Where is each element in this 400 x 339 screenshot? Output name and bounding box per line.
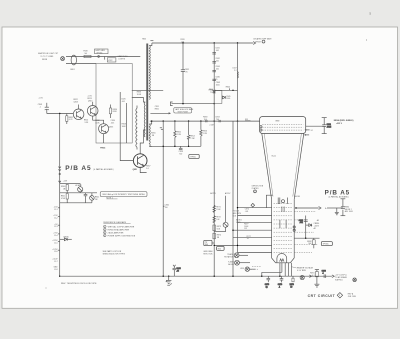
svg-text:.05: .05 [176,271,179,273]
svg-text:R874: R874 [217,234,221,236]
connector arrow to supply [332,275,334,278]
svg-text:2.2: 2.2 [234,70,237,72]
svg-text:DEFLECTION: DEFLECTION [252,185,264,187]
wire graticule top [66,56,140,58]
svg-text:+225V: +225V [52,240,58,242]
svg-text:700: 700 [179,154,182,156]
svg-text:15 TO 7 V RMS: 15 TO 7 V RMS [41,56,54,58]
legend item 1 [104,225,135,228]
svg-text:+125V: +125V [52,249,58,251]
node left rail to ground bus [59,276,60,277]
svg-text:R836: R836 [113,109,117,111]
svg-text:R822: R822 [74,99,78,101]
svg-text:R838: R838 [137,92,141,94]
heater filament [280,259,284,262]
zener VR843 [209,90,216,94]
legend item 3 [104,231,125,234]
svg-text:FROM: FROM [256,41,262,43]
svg-text:≈225 V: ≈225 V [336,123,343,125]
svg-text:860: 860 [218,248,221,250]
svg-text:4: 4 [104,235,105,237]
resistor R854 [187,121,195,146]
wire secondary top lead [149,43,152,46]
svg-text:R878: R878 [290,284,294,286]
svg-text:R875 750K: R875 750K [203,253,213,255]
svg-text:CR845: CR845 [63,236,69,238]
svg-text:FOCUS: FOCUS [233,211,239,213]
svg-text:C893: C893 [322,270,326,272]
wire adjust row [60,192,97,194]
wire gun feed rows [238,207,272,209]
svg-text:R852: R852 [177,132,181,134]
svg-text:C878: C878 [278,284,282,286]
capacitor C832 branch [180,39,189,104]
neck wall pin circles right [293,226,295,231]
svg-text:R842: R842 [95,197,99,199]
label secondary 1M [151,133,155,137]
svg-text:TEST POINT: TEST POINT [178,111,189,113]
svg-text:2.2M: 2.2M [203,133,208,135]
svg-text:C844: C844 [216,66,220,68]
svg-text:C879: C879 [265,284,269,286]
svg-text:.001: .001 [181,41,185,43]
svg-text:POWER SUPPLY DISTRIBUTION: POWER SUPPLY DISTRIBUTION [108,236,136,238]
labels right of deflection column [244,208,251,240]
capacitor C891 series [322,270,326,278]
svg-text:C846: C846 [216,76,220,78]
capacitor C842 [212,58,219,63]
resistor R873 [213,225,221,231]
svg-text:C859: C859 [215,117,219,119]
junction node [59,113,60,114]
wire focus column [225,196,227,223]
wire primary top lead [132,98,145,103]
svg-text:5.6: 5.6 [146,168,149,170]
wire bias row [47,113,74,115]
connector chevrons on left rail [58,167,61,175]
wire filament winding leads [149,121,151,124]
svg-text:C833: C833 [180,39,184,41]
chassis ground center [166,276,172,285]
CRT funnel walls [262,133,304,199]
svg-text:R871: R871 [216,206,220,208]
svg-text:L847: L847 [233,68,237,70]
transistor Q833 [99,124,114,134]
svg-text:GEOM: GEOM [294,196,300,198]
resistor R872 [213,216,221,223]
label box HIGH VOLTAGE TEST POINT [174,108,194,114]
svg-text:860: 860 [205,244,208,246]
resistor R874 [213,233,221,239]
wire arrow to test point [150,112,171,114]
svg-text:R844: R844 [226,86,230,88]
svg-text:.001: .001 [216,69,220,71]
svg-text:4.7: 4.7 [312,275,315,277]
svg-text:TP: TP [205,242,207,244]
capacitor C808 [38,103,49,114]
label DELAYED SWP GATE [254,38,272,44]
svg-text:TP 855: TP 855 [97,52,103,54]
wire link to horiz rail [214,89,237,91]
label 855 node [245,119,251,121]
wire grid column [232,121,234,276]
label C860 [163,205,169,209]
mesh dashed rows in faceplate [262,124,303,130]
svg-text:J1-6: J1-6 [54,251,58,253]
svg-text:+110V: +110V [52,258,58,260]
svg-text:R828: R828 [122,124,126,126]
wire HV test point row [172,103,215,105]
label graticule lights [118,55,128,60]
svg-text:Q855: Q855 [133,169,137,171]
svg-text:Q813: Q813 [88,100,92,102]
svg-text:C843: C843 [216,82,220,84]
resistor R856 [200,121,208,146]
tube label box V822 [105,57,116,63]
svg-text:R831: R831 [69,117,73,119]
wire lower row right [294,237,319,239]
wire inner box columns [119,92,121,143]
wire deflection plate exit [266,195,272,208]
svg-text:R854: R854 [190,136,194,138]
svg-text:C866: C866 [176,268,180,270]
svg-text:CRT CIRCUIT: CRT CIRCUIT [308,294,336,298]
legend item 2 [104,228,130,231]
wire left rail down [59,114,61,277]
shield box enclosure [96,64,132,144]
svg-text:J1-4: J1-4 [54,235,58,237]
wire Q855 base left [120,143,133,161]
svg-text:MESH (DEFL SHIELD): MESH (DEFL SHIELD) [334,120,354,122]
svg-text:700: 700 [204,119,207,121]
svg-text:R813: R813 [88,98,92,100]
CRT neck walls [272,199,295,262]
label geometry pin [294,196,300,198]
node dots on bus [151,120,152,121]
CRT socket arch [277,253,287,262]
resistor R836 [109,105,117,119]
socket pin drops [285,263,291,276]
svg-text:L859: L859 [240,268,244,270]
capacitor C846 [212,76,219,80]
svg-text:.001: .001 [216,50,220,52]
transistor Q855 HV oscillator [133,154,147,171]
diode CR886 [306,223,320,230]
screw terminal on bus [300,276,304,280]
svg-text:25: 25 [216,79,218,81]
label R844 [226,86,230,90]
capacitor C859 marks on bus [203,117,220,127]
svg-text:V822: V822 [108,60,112,62]
svg-text:J1-2: J1-2 [54,218,58,220]
svg-text:25: 25 [186,71,188,73]
svg-text:.1: .1 [39,107,41,109]
svg-text:2.2M: 2.2M [190,138,195,140]
svg-text:700: 700 [216,119,219,121]
svg-text:C886: C886 [299,220,303,222]
svg-text:P/B A5: P/B A5 [325,189,350,196]
connector pin J1-4 [53,233,59,237]
svg-text:C841: C841 [216,48,220,50]
resistor R824 [84,120,89,124]
test point box 855 [189,154,199,158]
label C826 [121,99,125,103]
svg-text:J1-5: J1-5 [54,243,58,245]
node dots on ground bus [163,276,164,277]
label revision [348,292,356,298]
svg-text:TP 865: TP 865 [323,244,329,246]
svg-text:Q833: Q833 [109,126,113,128]
wire adjust bottom [60,202,92,204]
svg-text:R872: R872 [216,217,220,219]
wire mesh lead right [306,125,325,127]
wire deflection column [237,43,239,253]
label focus adj [233,211,241,218]
wire Q3 emitter [103,134,105,143]
svg-text:.001: .001 [121,101,125,103]
svg-text:T855: T855 [142,38,146,40]
coil L859 beam rotation [240,267,255,271]
node junction y43 [182,42,183,43]
label mesh shield [334,120,354,125]
resistor R840 [60,184,69,193]
label heater voltage [291,267,313,272]
svg-text:C851: C851 [155,106,159,108]
svg-text:2: 2 [254,191,255,193]
svg-text:C858: C858 [179,151,183,153]
transformer T855 core [146,44,148,141]
wire bias column lower [213,121,215,276]
potentiometer TRACE ROTATION [224,253,248,259]
svg-text:SEMICONDUCTOR TYPES: SEMICONDUCTOR TYPES [103,253,125,255]
main ground bus [60,275,332,277]
connector arrow bus right [309,275,311,278]
svg-text:R888: R888 [307,241,311,243]
resistor R882 vertical [327,199,345,216]
wire graticule bottom [66,63,96,65]
svg-text:.0015: .0015 [327,127,332,129]
svg-text:.001: .001 [299,222,303,224]
svg-text:TP855: TP855 [190,156,195,158]
svg-text:R856: R856 [203,131,207,133]
labels geometry network [345,206,354,213]
legend item 4 [104,234,136,237]
svg-text:24: 24 [311,130,313,132]
svg-text:P/B A5: P/B A5 [65,165,91,172]
svg-text:J1-8: J1-8 [54,269,58,271]
wire primary bottom lead to Q855 [140,130,145,154]
svg-text:JUN 1980: JUN 1980 [348,296,356,298]
svg-text:R855: R855 [151,133,155,135]
capacitor C878 below bus [278,276,284,288]
svg-text:2.2M: 2.2M [177,134,182,136]
test point label box LAST GRID TP [95,49,109,57]
svg-text:R824: R824 [84,120,88,122]
svg-text:C834: C834 [111,120,115,122]
HV rectifier bus [150,120,260,122]
test point box 865 [321,242,332,246]
label C834 [111,120,115,124]
svg-text:REV. 7603/R7603 OSCILLOSCOPE: REV. 7603/R7603 OSCILLOSCOPE [61,283,97,285]
capacitor C884 [299,220,308,224]
diagram diamond ref 5 [337,293,342,298]
CRT V859 faceplate [260,117,306,134]
dashed links to socket [252,266,262,269]
svg-text:C832: C832 [185,69,189,71]
svg-text:1000: 1000 [216,84,220,86]
resistor R878 below bus [290,276,295,288]
svg-text:R841: R841 [61,196,65,198]
label +15V feed [59,181,68,183]
svg-text:150: 150 [165,207,168,209]
svg-text:TP855: TP855 [100,147,105,149]
svg-text:C842: C842 [216,58,220,60]
svg-text:LIGHTS: LIGHTS [119,59,126,61]
label GRATICULE LIGHT input [38,52,58,61]
svg-text:Q823: Q823 [74,101,78,103]
wire multiplier column [213,43,215,121]
svg-text:C860: C860 [165,205,169,207]
label R828 [122,124,127,128]
potentiometer FOCUS [214,222,228,231]
diagram circle ref 2 [254,190,257,193]
diode D840 label [209,89,213,91]
transformer primary winding [144,102,145,137]
svg-text:.1: .1 [322,273,324,275]
svg-text:R859: R859 [203,117,207,119]
svg-text:.001: .001 [216,61,220,63]
svg-text:2.2M: 2.2M [210,124,215,126]
diode CR845 [60,236,72,240]
svg-text:CR886: CR886 [314,223,320,225]
label C851 R851 [155,106,159,110]
wire astig column right [305,216,307,239]
transformer feedback winding [136,106,137,150]
transformer filament winding [148,124,151,146]
svg-text:REFERENCE DIAGRAMS: REFERENCE DIAGRAMS [103,221,126,224]
dashed socket links right [294,212,318,253]
svg-text:+15 V (DCPL): +15 V (DCPL) [335,275,347,277]
svg-text:R840: R840 [61,186,65,188]
potentiometer Y AXIS ALIGN [228,260,250,266]
wire Q2 to Q3 [93,116,104,124]
svg-text:GEOM 2: GEOM 2 [345,209,352,211]
svg-text:V859: V859 [275,120,279,122]
svg-text:R891: R891 [310,272,314,274]
label C843 [216,82,220,86]
connector pin J1-1 [54,206,60,210]
transistor Q813 [87,96,98,117]
svg-text:C874: C874 [245,208,249,210]
capacitor C858 [179,146,183,155]
label astig [236,219,242,224]
svg-text:C826: C826 [121,99,125,101]
stray mark [46,288,47,289]
connector pin J1-2 [53,215,59,219]
svg-text:C845: C845 [226,96,230,98]
capacitor C844 [212,66,219,72]
capacitor C866 with antenna [173,265,181,276]
gun electrode dashed rows [274,204,293,253]
resistor R831 [66,114,74,125]
parts list note [103,250,125,256]
transformer secondary winding [149,46,150,100]
svg-text:C808: C808 [38,104,42,106]
connector pin J1-3 [54,224,60,228]
capacitor C853 on rail [160,121,163,276]
capacitor C841 [212,48,219,54]
faceplate pins left [260,126,262,131]
wire Q855 emitter [140,167,146,172]
rectifier sub-box [214,91,230,104]
svg-text:.005: .005 [111,123,115,125]
svg-text:.001: .001 [245,211,249,213]
svg-text:10: 10 [290,286,292,288]
diagram diamond ref 3 [251,203,255,207]
svg-text:R851: R851 [155,108,159,110]
note box [100,192,147,200]
svg-text:85-11: 85-11 [272,156,277,158]
svg-text:R832: R832 [95,120,99,122]
test point box grid bias [204,240,214,246]
resistor R888 [307,238,315,248]
svg-text:B801: B801 [71,69,75,71]
svg-text:.1: .1 [279,287,281,289]
resistor R852 [174,121,182,146]
connector pin J1-5 [52,240,59,244]
screw terminal symbol [61,57,65,61]
connector arrow delayed swp gate [253,42,255,45]
lamp DS801 [71,55,77,71]
potentiometer HV ADJ [67,184,83,193]
stray dot top right [366,39,367,40]
svg-text:1000: 1000 [226,98,230,100]
gun cathode structure [278,198,287,229]
wire HV line to delayed sweep gate [152,42,253,44]
label R857 [146,165,150,169]
legend heading [103,221,130,224]
svg-text:R884: R884 [345,206,349,208]
ground bottom right [314,284,319,287]
svg-text:R873: R873 [217,226,221,228]
svg-text:.01: .01 [246,238,249,240]
svg-text:6.3 V RMS: 6.3 V RMS [297,270,306,272]
svg-text:J1-7: J1-7 [54,261,58,263]
svg-text:1µ: 1µ [266,286,268,288]
connector pin labels lower [52,258,58,270]
fuse F849 [84,51,92,58]
svg-text:J1-3: J1-3 [54,226,58,228]
svg-text:R857: R857 [146,165,150,167]
capacitor C879 below bus [265,276,270,288]
test point box 860 [217,246,225,250]
wire geometry lead [295,207,318,209]
label grid bias [203,250,213,255]
svg-text:F849: F849 [84,51,88,53]
svg-text:D840: D840 [209,89,213,91]
ground geometry [335,208,339,215]
inductor L847 [233,68,239,78]
resistor R841 [61,194,68,203]
resistor R871 [213,205,221,212]
transistor Q823 [73,99,84,120]
label horizontal plates [252,185,264,189]
resistor R879 to ground [310,270,319,285]
svg-text:J1-1: J1-1 [54,209,58,211]
potentiometer focus preset [90,193,100,201]
svg-text:C838: C838 [327,124,331,126]
label 15V decoupled [335,275,356,282]
